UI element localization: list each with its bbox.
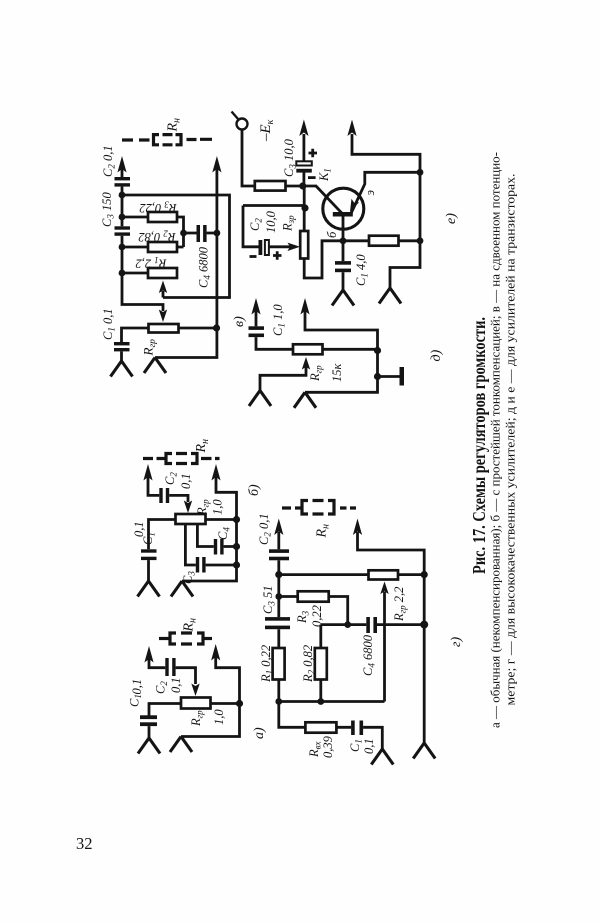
svg-text:C1 0,1: C1 0,1	[101, 308, 117, 340]
svg-text:Rн: Rн	[194, 439, 211, 454]
svg-text:C4 6800: C4 6800	[361, 634, 377, 676]
svg-text:C3 51: C3 51	[261, 586, 277, 614]
svg-text:R3 0,22: R3 0,22	[139, 200, 177, 216]
svg-text:1,0: 1,0	[212, 709, 226, 725]
svg-text:К1: К1	[317, 168, 333, 182]
svg-text:г): г)	[449, 637, 464, 647]
svg-text:C2: C2	[154, 681, 170, 694]
svg-text:а): а)	[252, 727, 267, 739]
svg-text:Rн: Rн	[166, 118, 183, 133]
svg-text:Rгр: Rгр	[141, 339, 159, 357]
svg-text:Rгр: Rгр	[308, 365, 324, 382]
svg-text:Rзр: Rзр	[281, 215, 297, 232]
svg-text:C1: C1	[128, 694, 144, 707]
svg-text:Rгр: Rгр	[195, 499, 211, 516]
svg-text:–Eк: –Eк	[258, 119, 276, 142]
svg-text:15к: 15к	[330, 364, 344, 383]
svg-text:C3 150: C3 150	[100, 192, 116, 227]
svg-text:0,1: 0,1	[130, 679, 144, 695]
svg-text:C1 1,0: C1 1,0	[271, 304, 287, 336]
svg-text:0,1: 0,1	[179, 473, 193, 489]
svg-text:д): д)	[429, 349, 444, 361]
svg-text:а — обычная (некомпенсированна: а — обычная (некомпенсированная); б — с …	[488, 152, 503, 728]
svg-text:C1 4,0: C1 4,0	[354, 254, 370, 286]
svg-text:э: э	[363, 190, 377, 196]
svg-text:R3: R3	[295, 610, 311, 624]
svg-text:32: 32	[76, 834, 93, 853]
svg-text:10,0: 10,0	[264, 210, 278, 233]
svg-text:C2: C2	[163, 472, 179, 485]
svg-text:C4: C4	[216, 527, 232, 540]
svg-text:1,0: 1,0	[211, 499, 225, 515]
svg-text:0,1: 0,1	[169, 677, 183, 693]
svg-text:Рис. 17. Схемы регуляторов гро: Рис. 17. Схемы регуляторов громкости.	[469, 317, 489, 574]
svg-text:е): е)	[444, 213, 459, 224]
svg-text:б: б	[325, 231, 339, 238]
svg-text:R1 2,2: R1 2,2	[136, 255, 168, 271]
svg-text:C2 0,1: C2 0,1	[101, 145, 117, 177]
svg-text:0,39: 0,39	[321, 735, 335, 758]
svg-text:0,1: 0,1	[132, 521, 146, 537]
svg-text:R2 0,82: R2 0,82	[301, 645, 317, 683]
svg-text:C4 6800: C4 6800	[197, 246, 213, 288]
svg-text:R2 0,82: R2 0,82	[138, 229, 176, 245]
svg-text:C3: C3	[181, 571, 197, 584]
svg-text:0,1: 0,1	[362, 738, 376, 754]
svg-text:C2: C2	[248, 218, 264, 231]
svg-text:в): в)	[232, 316, 247, 327]
svg-text:R1 0,22: R1 0,22	[259, 645, 275, 683]
svg-text:C3 10,0: C3 10,0	[282, 138, 298, 177]
svg-text:б): б)	[247, 484, 262, 496]
svg-text:Rн: Rн	[315, 524, 332, 539]
svg-text:Rн: Rн	[182, 618, 199, 633]
svg-text:метре; г — для высококачествен: метре; г — для высококачественных усилит…	[503, 174, 518, 706]
svg-text:Rгр: Rгр	[189, 710, 205, 727]
svg-text:C2 0,1: C2 0,1	[257, 513, 273, 545]
svg-text:Rгр 2,2: Rгр 2,2	[392, 587, 408, 622]
svg-text:0,22: 0,22	[310, 605, 324, 627]
